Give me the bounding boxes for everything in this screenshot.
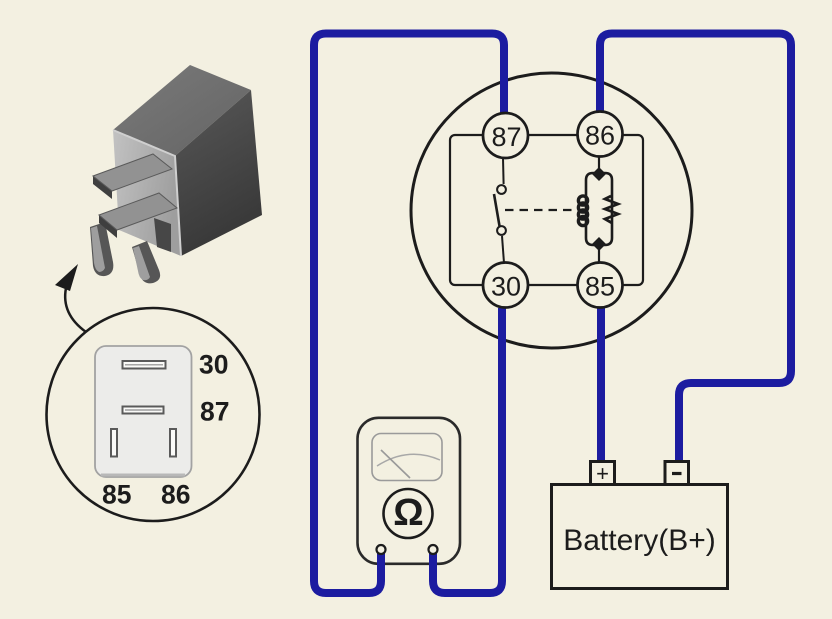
relay blade pin upper side xyxy=(93,176,112,199)
slot 86 xyxy=(170,429,176,457)
relay bottom pin center highlight xyxy=(133,246,150,280)
relay right face xyxy=(175,90,262,256)
svg-text:Ω: Ω xyxy=(393,492,423,534)
relay bottom view circle xyxy=(47,308,260,521)
svg-text:85: 85 xyxy=(102,480,131,510)
slot 30 xyxy=(123,361,166,369)
wire ohmmeter to terminal 87 xyxy=(314,34,504,594)
battery body xyxy=(552,485,728,589)
arrow xyxy=(55,264,86,332)
terminal 86 xyxy=(578,112,623,157)
main relay schematic circle xyxy=(411,73,692,348)
terminal 85 xyxy=(578,263,623,308)
terminal 30 xyxy=(483,263,528,308)
relay bottom pin back xyxy=(154,218,171,252)
ohmmeter terminal right xyxy=(429,545,438,554)
relay blade pin lower top xyxy=(99,193,177,230)
relay internal box xyxy=(450,135,643,285)
wire terminal 85 to battery plus xyxy=(597,308,605,463)
ohmmeter body xyxy=(358,418,461,564)
terminal 87 xyxy=(483,113,528,158)
resistor R1 xyxy=(605,196,618,223)
coil branch frame xyxy=(586,156,612,263)
switch contact xyxy=(494,158,506,263)
relay 3D view xyxy=(90,65,262,283)
slot 85 xyxy=(111,429,117,457)
relay front-left face xyxy=(113,130,181,256)
svg-text:87: 87 xyxy=(200,397,229,427)
relay bottom pin center xyxy=(132,241,160,283)
ohmmeter omega dial xyxy=(384,489,433,538)
ohmmeter terminal left xyxy=(377,545,386,554)
relay bottom pin left highlight xyxy=(91,226,105,272)
coil L1 xyxy=(578,196,587,226)
dashed linkage xyxy=(505,209,578,211)
relay bottom pin left xyxy=(90,222,113,276)
slot 87 xyxy=(123,407,164,414)
relay blade pin lower side xyxy=(99,215,117,238)
svg-text:Battery(B+): Battery(B+) xyxy=(563,524,716,557)
junction top xyxy=(592,167,606,181)
battery minus terminal xyxy=(665,462,689,485)
svg-text:85: 85 xyxy=(585,272,615,302)
svg-text:86: 86 xyxy=(585,121,615,151)
ohmmeter display xyxy=(372,434,442,481)
svg-text:86: 86 xyxy=(161,480,190,510)
svg-text:30: 30 xyxy=(491,272,521,302)
relay top face xyxy=(113,65,251,156)
wire terminal 86 to battery minus xyxy=(600,34,791,464)
battery plus terminal xyxy=(591,461,615,486)
svg-text:87: 87 xyxy=(491,122,521,152)
wire ohmmeter to terminal 30 xyxy=(433,308,502,593)
svg-text:+: + xyxy=(596,461,609,486)
junction bottom xyxy=(592,237,606,251)
relay bottom view body xyxy=(95,346,192,477)
relay front edge highlight xyxy=(113,130,181,256)
relay blade pin upper top xyxy=(93,154,172,191)
svg-text:30: 30 xyxy=(199,350,228,380)
